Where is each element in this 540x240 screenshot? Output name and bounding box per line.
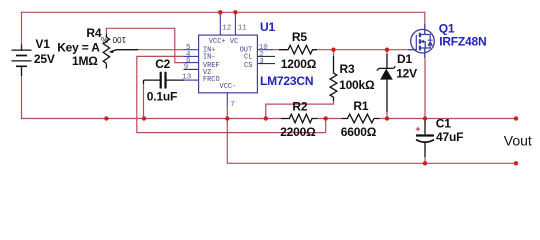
MOSFET Q1 body arrowhead <box>420 40 424 44</box>
resistor R3 <box>330 56 337 101</box>
svg-text:Key = A: Key = A <box>57 40 100 54</box>
zener diode D1 <box>377 54 396 112</box>
junction R2-R1 divider <box>324 116 328 120</box>
svg-text:D1: D1 <box>397 52 412 66</box>
junction C2 rail A <box>142 116 146 120</box>
terminal Vout top <box>514 116 518 120</box>
svg-text:R3: R3 <box>340 62 355 76</box>
pin 4 stub <box>184 55 199 57</box>
wire C1 bottom red part <box>424 157 426 163</box>
potentiometer R4 <box>103 34 138 69</box>
svg-text:13: 13 <box>182 73 192 81</box>
svg-text:7: 7 <box>230 101 235 109</box>
junction C1 bottom rail <box>423 161 427 165</box>
svg-text:100kΩ: 100kΩ <box>339 78 375 92</box>
svg-text:R5: R5 <box>292 30 307 44</box>
wire R4 top to pin6 VREF <box>106 28 184 62</box>
svg-text:U1: U1 <box>260 20 275 34</box>
battery V1 <box>12 45 32 77</box>
pin 11 stub <box>234 12 236 35</box>
wire D1 anode to rail A <box>386 112 388 119</box>
pin 9 stub <box>184 68 199 70</box>
svg-text:IRFZ48N: IRFZ48N <box>439 35 486 49</box>
svg-text:V1: V1 <box>35 37 50 51</box>
wire C2 left to rail A <box>143 84 145 119</box>
junction R3 return rail A <box>264 116 268 120</box>
wire R5 to Q1 gate <box>317 49 408 51</box>
svg-text:1200Ω: 1200Ω <box>281 57 317 71</box>
svg-text:C1: C1 <box>436 117 451 131</box>
resistor R1 <box>342 114 380 123</box>
svg-text:3: 3 <box>259 58 264 66</box>
svg-text:CS: CS <box>244 62 252 70</box>
svg-text:12: 12 <box>222 24 231 32</box>
wire rail A right segment to output <box>380 118 517 120</box>
svg-text:CL: CL <box>244 53 252 61</box>
wire pin4 IN- to R2/R1 divider junction <box>137 56 326 132</box>
capacitor C1 plus sign <box>416 127 420 131</box>
svg-text:R2: R2 <box>292 99 307 113</box>
svg-text:R1: R1 <box>353 99 368 113</box>
potentiometer R4 wiper arrowhead <box>109 50 114 53</box>
resistor R5 <box>279 45 317 54</box>
junction pin7 rail A <box>225 116 229 120</box>
pot percentage 100% rotated <box>100 35 126 45</box>
junction pin12 top rail <box>218 10 222 14</box>
svg-text:47uF: 47uF <box>436 130 463 144</box>
wire R4 wiper to pin5 IN+ <box>138 49 184 51</box>
MOSFET Q1 body diode triangle <box>427 40 433 45</box>
junction R5-R3 node <box>331 48 335 52</box>
svg-text:IN-: IN- <box>203 53 216 61</box>
svg-text:25V: 25V <box>34 52 55 66</box>
svg-text:VCC+ VC: VCC+ VC <box>209 38 238 46</box>
wire pin10 OUT to R5 <box>271 49 279 51</box>
svg-text:11: 11 <box>238 24 248 32</box>
wire R3 bottom to rail A <box>266 101 334 119</box>
wire R3 top red part <box>333 50 335 56</box>
junction Q1 source C1 <box>423 116 427 120</box>
junction D1 anode rail A <box>385 116 389 120</box>
wire pin7 VCC- to rail A and bottom rail <box>227 107 516 163</box>
wire Q1 source to rail A <box>424 58 426 119</box>
pin 6 stub <box>184 62 199 64</box>
svg-text:100 %: 100 % <box>100 35 126 45</box>
svg-text:Q1: Q1 <box>439 22 455 36</box>
pin 10 stub <box>257 49 272 51</box>
IC U1 LM723CN box <box>199 35 258 93</box>
svg-text:1MΩ: 1MΩ <box>72 54 98 68</box>
pin 5 stub <box>184 49 199 51</box>
svg-text:6600Ω: 6600Ω <box>341 125 377 139</box>
capacitor C2 <box>144 72 185 89</box>
pin 13 stub <box>184 79 199 81</box>
wire D1 cathode red part <box>386 50 388 54</box>
pin 12 stub <box>219 12 221 35</box>
resistor R2 <box>281 114 318 123</box>
wire top rail V1+ to Q1 drain <box>22 12 425 44</box>
wire rail A middle segment R2-R1 <box>318 118 342 120</box>
svg-text:0.1uF: 0.1uF <box>147 89 177 103</box>
junction pin11 top rail <box>233 10 237 14</box>
svg-text:Vout: Vout <box>504 132 532 148</box>
svg-text:VCC-: VCC- <box>220 83 237 91</box>
svg-text:FRCO: FRCO <box>203 76 220 84</box>
capacitor C1 <box>416 119 434 158</box>
svg-text:9: 9 <box>184 63 189 71</box>
pin 7 stub <box>226 93 228 107</box>
junction D1-gate node <box>385 48 389 52</box>
junction R4 bottom <box>104 116 108 120</box>
svg-text:12V: 12V <box>396 67 417 81</box>
pin 2 stub <box>257 55 275 57</box>
svg-text:2200Ω: 2200Ω <box>280 125 316 139</box>
terminal Vout bottom <box>514 161 518 165</box>
MOSFET Q1 IRFZ48N <box>408 24 434 59</box>
pin 3 stub <box>257 63 275 65</box>
svg-text:C2: C2 <box>155 57 170 71</box>
wire battery minus to ground rail A <box>22 76 282 119</box>
svg-text:R4: R4 <box>86 26 101 40</box>
svg-text:LM723CN: LM723CN <box>260 74 313 88</box>
